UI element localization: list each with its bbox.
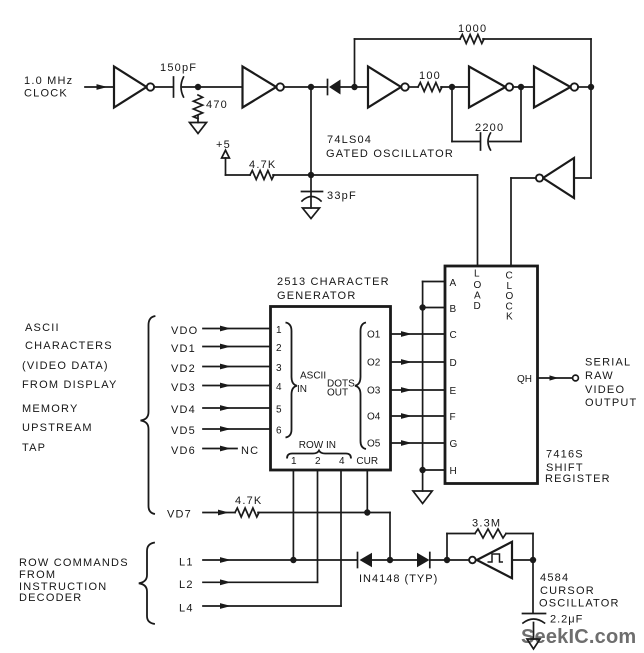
svg-text:NC: NC	[241, 445, 259, 457]
svg-text:3.3M: 3.3M	[472, 518, 501, 530]
svg-text:REGISTER: REGISTER	[545, 473, 611, 485]
svg-text:4: 4	[339, 456, 345, 467]
svg-text:1000: 1000	[458, 23, 487, 35]
svg-text:3: 3	[276, 363, 282, 374]
svg-text:CURSOR: CURSOR	[540, 585, 595, 597]
svg-text:1.0 MHz: 1.0 MHz	[24, 75, 73, 87]
svg-text:2: 2	[276, 343, 282, 354]
svg-text:2: 2	[315, 456, 321, 467]
svg-text:2513 CHARACTER: 2513 CHARACTER	[277, 276, 390, 288]
svg-text:OUTPUT: OUTPUT	[585, 397, 637, 409]
svg-text:O3: O3	[367, 386, 381, 397]
svg-text:OUT: OUT	[327, 388, 348, 399]
svg-text:FROM: FROM	[19, 569, 56, 581]
svg-text:L4: L4	[179, 603, 194, 615]
svg-text:33pF: 33pF	[327, 190, 357, 202]
svg-text:DECODER: DECODER	[19, 592, 82, 604]
svg-text:L1: L1	[179, 557, 194, 569]
svg-text:OSCILLATOR: OSCILLATOR	[539, 598, 620, 610]
svg-text:C: C	[450, 330, 457, 341]
svg-text:4.7K: 4.7K	[235, 495, 262, 507]
svg-text:G: G	[450, 439, 458, 450]
svg-text:K: K	[506, 312, 513, 323]
svg-text:QH: QH	[517, 374, 532, 385]
svg-text:O4: O4	[367, 412, 381, 423]
svg-text:SeekIC.com: SeekIC.com	[521, 626, 636, 648]
svg-text:ASCII: ASCII	[25, 322, 60, 334]
svg-text:MEMORY: MEMORY	[22, 403, 79, 415]
svg-text:L: L	[474, 269, 480, 280]
svg-text:2200: 2200	[475, 122, 504, 134]
svg-text:VD2: VD2	[171, 363, 196, 375]
svg-text:O1: O1	[367, 330, 381, 341]
svg-text:CLOCK: CLOCK	[24, 88, 68, 100]
svg-text:F: F	[450, 412, 456, 423]
svg-text:ROW IN: ROW IN	[299, 440, 336, 451]
svg-text:L2: L2	[179, 579, 194, 591]
svg-text:H: H	[450, 466, 457, 477]
svg-text:A: A	[450, 278, 457, 289]
svg-text:D: D	[474, 301, 481, 312]
svg-text:470: 470	[206, 99, 228, 111]
svg-text:VD3: VD3	[171, 382, 196, 394]
svg-text:IN: IN	[297, 384, 307, 395]
svg-text:B: B	[450, 304, 457, 315]
svg-text:5: 5	[276, 405, 282, 416]
svg-text:ASCII: ASCII	[300, 371, 326, 382]
svg-text:(VIDEO DATA): (VIDEO DATA)	[22, 360, 109, 372]
svg-text:1: 1	[276, 325, 282, 336]
svg-text:O2: O2	[367, 358, 381, 369]
svg-text:74LS04: 74LS04	[327, 134, 372, 146]
svg-text:FROM DISPLAY: FROM DISPLAY	[22, 379, 118, 391]
svg-text:SERIAL: SERIAL	[585, 357, 631, 369]
svg-text:+5: +5	[216, 139, 231, 151]
svg-text:IN4148 (TYP): IN4148 (TYP)	[359, 573, 438, 585]
svg-text:VD5: VD5	[171, 425, 196, 437]
svg-text:ROW COMMANDS: ROW COMMANDS	[19, 557, 129, 569]
svg-text:4584: 4584	[540, 572, 569, 584]
svg-text:D: D	[450, 358, 457, 369]
svg-text:VDO: VDO	[171, 325, 198, 337]
svg-text:1: 1	[291, 456, 297, 467]
svg-text:O5: O5	[367, 439, 381, 450]
svg-text:UPSTREAM: UPSTREAM	[22, 422, 93, 434]
svg-text:E: E	[450, 386, 457, 397]
svg-text:150pF: 150pF	[160, 62, 197, 74]
svg-text:4: 4	[276, 382, 282, 393]
svg-text:VD4: VD4	[171, 404, 196, 416]
svg-text:GATED OSCILLATOR: GATED OSCILLATOR	[326, 148, 454, 160]
svg-text:100: 100	[419, 70, 441, 82]
svg-text:RAW: RAW	[585, 370, 614, 382]
svg-text:7416S: 7416S	[546, 449, 584, 461]
svg-text:6: 6	[276, 426, 282, 437]
svg-text:4.7K: 4.7K	[249, 159, 276, 171]
svg-text:2.2μF: 2.2μF	[550, 614, 583, 626]
svg-text:VD7: VD7	[167, 509, 192, 521]
svg-text:TAP: TAP	[22, 442, 46, 454]
svg-text:VIDEO: VIDEO	[585, 384, 625, 396]
svg-text:CUR: CUR	[356, 456, 378, 467]
svg-text:VD6: VD6	[171, 445, 196, 457]
svg-text:VD1: VD1	[171, 343, 196, 355]
svg-text:O: O	[474, 280, 482, 291]
svg-text:CHARACTERS: CHARACTERS	[25, 340, 113, 352]
svg-text:A: A	[474, 291, 481, 302]
svg-text:GENERATOR: GENERATOR	[277, 290, 356, 302]
